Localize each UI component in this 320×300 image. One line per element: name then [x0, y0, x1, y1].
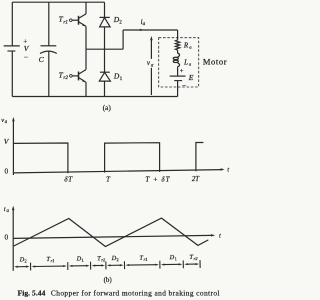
- svg-text:r1: r1: [144, 257, 148, 262]
- svg-text:(a): (a): [103, 103, 112, 112]
- svg-text:2T: 2T: [192, 176, 200, 183]
- svg-text:δT: δT: [64, 174, 73, 183]
- svg-text:r2: r2: [63, 75, 68, 81]
- svg-text:T + δT: T + δT: [145, 175, 170, 183]
- svg-text:R: R: [183, 41, 189, 49]
- svg-text:C: C: [39, 55, 45, 64]
- svg-text:2: 2: [24, 258, 26, 263]
- svg-text:r1: r1: [51, 258, 55, 263]
- svg-text:−: −: [24, 52, 28, 61]
- svg-text:0: 0: [5, 168, 9, 176]
- svg-text:2: 2: [119, 19, 122, 25]
- svg-text:i: i: [4, 206, 6, 213]
- svg-text:+: +: [180, 68, 184, 75]
- svg-text:(b): (b): [104, 276, 113, 284]
- svg-text:1: 1: [81, 258, 83, 263]
- svg-text:1: 1: [120, 76, 123, 82]
- svg-text:1: 1: [175, 256, 177, 261]
- svg-text:Chopper for forward motoring a: Chopper for forward motoring and braking…: [51, 289, 220, 298]
- svg-text:r1: r1: [63, 19, 68, 25]
- svg-text:−: −: [182, 82, 186, 90]
- svg-text:Motor: Motor: [203, 56, 227, 66]
- svg-text:t: t: [227, 166, 229, 173]
- svg-text:t: t: [219, 232, 221, 239]
- svg-text:v: v: [1, 117, 4, 124]
- svg-text:0: 0: [5, 234, 9, 242]
- svg-text:L: L: [183, 58, 188, 66]
- svg-text:2: 2: [116, 257, 118, 262]
- svg-text:Fig. 5.44: Fig. 5.44: [18, 289, 46, 298]
- svg-text:E: E: [188, 73, 194, 82]
